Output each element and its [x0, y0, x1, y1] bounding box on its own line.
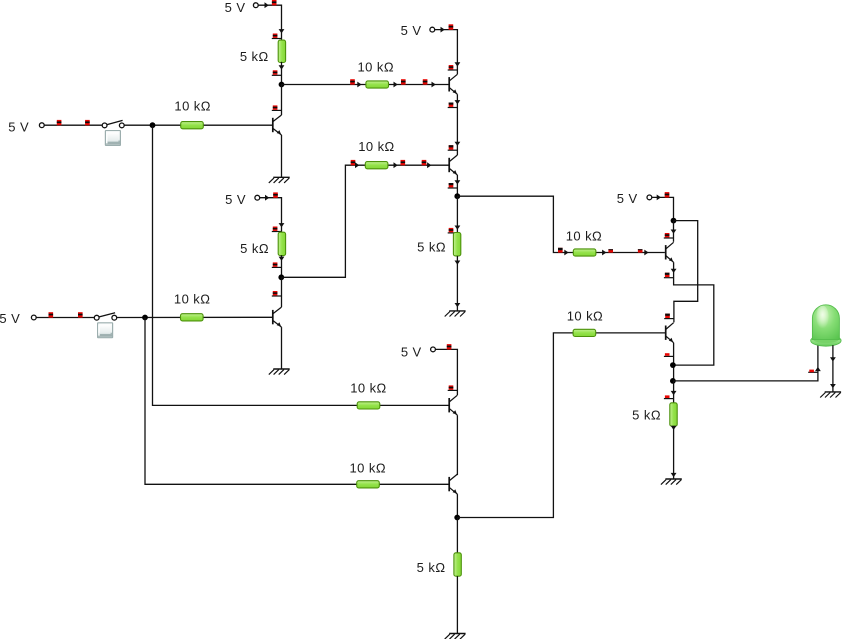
- pin marker: [272, 105, 282, 110]
- current arrow: [265, 2, 269, 8]
- transistor Q2 (input B inverter): [273, 307, 282, 327]
- wire 5k to node2: [281, 255, 283, 277]
- resistor 5 kOhm (output load): [632, 403, 677, 426]
- wire T3 emitter to T4 collector: [456, 94, 458, 155]
- pin marker: [608, 249, 613, 252]
- ground (Q1 emitter): [269, 177, 290, 183]
- svg-text:5 kΩ: 5 kΩ: [240, 49, 269, 64]
- wire 5V top-left to corner: [258, 5, 281, 40]
- resistor 10 kOhm (input B): [174, 291, 211, 321]
- node junction (input B tap): [142, 315, 148, 321]
- power terminal 5V (top-middle supply): [401, 23, 435, 38]
- svg-text:5 V: 5 V: [401, 23, 422, 38]
- node junction (node1): [279, 82, 285, 88]
- pin marker: [401, 79, 406, 84]
- svg-text:10 kΩ: 10 kΩ: [566, 229, 603, 244]
- pin marker: [78, 312, 83, 317]
- current arrow: [602, 250, 606, 256]
- current arrow: [455, 142, 461, 146]
- transistor T6 (output pair bottom): [666, 323, 674, 343]
- power terminal 5V (bottom supply): [401, 344, 436, 359]
- resistor 10 kOhm (node2 row): [358, 139, 395, 169]
- svg-text:5 kΩ: 5 kΩ: [240, 241, 269, 256]
- current arrow: [830, 384, 836, 388]
- power terminal 5V (input B): [0, 311, 36, 326]
- pin marker: [638, 249, 643, 252]
- wire pair1 output to 5k: [456, 196, 458, 232]
- power terminal 5V (mid-left supply): [225, 192, 260, 207]
- pin marker: [448, 385, 458, 390]
- wire Q1 emitter to ground: [281, 135, 283, 177]
- power terminal 5V (input A): [8, 119, 44, 134]
- pin marker: [664, 233, 674, 238]
- wire T7 emitter to T8 collector: [456, 415, 458, 475]
- current arrow: [455, 303, 461, 307]
- ground (pair1 load): [445, 311, 466, 317]
- pin marker: [272, 262, 282, 267]
- svg-text:5 V: 5 V: [8, 119, 29, 134]
- resistor 10 kOhm (T8 base): [350, 461, 387, 488]
- svg-text:5 V: 5 V: [401, 344, 422, 359]
- pin marker: [272, 70, 282, 75]
- resistor 10 kOhm (node1 row): [358, 60, 395, 89]
- LED D1 (green): [811, 305, 841, 346]
- wire pair2 output to 5k: [456, 518, 458, 553]
- current arrow: [455, 62, 461, 66]
- wire 5k to ground: [456, 576, 458, 633]
- resistor 10 kOhm (to T5 base): [566, 229, 603, 256]
- transistor T3 (series pair top): [449, 74, 457, 94]
- svg-text:5 kΩ: 5 kΩ: [632, 407, 661, 422]
- wire output node to LED anode: [673, 345, 818, 381]
- wire node2 L-path to T4 base row: [281, 165, 448, 277]
- pin marker: [401, 160, 406, 165]
- push button icon SW-B: [97, 322, 113, 338]
- wire input B vertical to T8 base: [145, 318, 449, 485]
- pin marker: [664, 273, 674, 278]
- current arrow: [671, 230, 677, 234]
- pin marker: [57, 120, 62, 125]
- pin marker: [351, 160, 356, 165]
- current arrow: [394, 162, 398, 168]
- transistor T8 (series pair2 bottom): [449, 474, 457, 494]
- svg-text:10 kΩ: 10 kΩ: [350, 380, 387, 395]
- pin marker: [272, 291, 282, 296]
- pin marker: [272, 0, 277, 5]
- wire T4 emitter to out-node: [456, 175, 458, 196]
- switch SW-B (open): [94, 313, 116, 320]
- svg-text:5 V: 5 V: [225, 192, 246, 207]
- transistor T5 (output pair top): [666, 242, 674, 262]
- wire Q1 collector to node1: [281, 85, 283, 116]
- wire 5V bottom to T7 collector: [435, 349, 457, 395]
- svg-text:5 V: 5 V: [225, 0, 246, 15]
- transistor T7 (series pair2 top): [449, 395, 457, 415]
- switch SW-A (open): [102, 120, 124, 127]
- wire pair2 output to T6 base row: [457, 333, 665, 518]
- current arrow: [455, 180, 461, 184]
- pin marker: [447, 344, 452, 349]
- wire T8 emitter to out-node2: [456, 494, 458, 517]
- pin marker: [665, 192, 670, 197]
- current arrow: [279, 29, 285, 33]
- current arrow: [564, 250, 568, 256]
- resistor 10 kOhm (T7 base): [350, 380, 387, 409]
- node junction (right supply node): [671, 218, 677, 224]
- ground (Q2 emitter): [269, 369, 290, 375]
- current arrow: [830, 357, 836, 361]
- wire 5V top-middle to T3 collector: [435, 30, 458, 75]
- pin marker: [664, 314, 674, 319]
- current arrow: [455, 226, 461, 230]
- svg-text:5 V: 5 V: [617, 191, 638, 206]
- wire switch B to Q2 base: [117, 316, 272, 318]
- wire input A terminal to switch: [44, 124, 102, 126]
- svg-text:10 kΩ: 10 kΩ: [350, 461, 387, 476]
- wire switch A to Q1 base: [124, 124, 272, 126]
- current arrow: [265, 195, 269, 201]
- wire bypass to T6 collector: [674, 221, 698, 323]
- node junction (node2): [278, 274, 284, 280]
- svg-text:10 kΩ: 10 kΩ: [174, 99, 211, 114]
- wire T5 emitter path to emitter join: [673, 262, 714, 365]
- current arrow: [355, 162, 359, 168]
- wire input B terminal to switch: [36, 317, 94, 319]
- pin marker: [448, 65, 458, 70]
- pin marker: [422, 160, 427, 165]
- resistor 5 kOhm (pair2 load): [417, 553, 462, 576]
- pin marker: [350, 79, 355, 84]
- pin marker: [664, 395, 674, 398]
- resistor 5 kOhm (stage 2): [240, 232, 285, 256]
- current arrow: [279, 223, 285, 227]
- node junction (pair1 output): [454, 193, 460, 199]
- current arrow: [644, 250, 648, 256]
- wire pair1 output to T5 base row: [457, 196, 665, 252]
- current arrow: [432, 82, 436, 88]
- resistor 5 kOhm (pair1 load): [417, 233, 461, 256]
- pin marker: [448, 228, 458, 233]
- pin marker: [272, 34, 282, 39]
- node junction (emitter join): [670, 362, 676, 368]
- current arrow: [671, 269, 677, 273]
- current arrow: [671, 473, 677, 477]
- svg-text:5 kΩ: 5 kΩ: [417, 240, 446, 255]
- pin marker: [664, 353, 674, 356]
- wire node1 row to T3 base: [282, 84, 449, 86]
- current arrow: [441, 27, 445, 33]
- pin marker: [448, 103, 458, 108]
- pin marker: [449, 24, 454, 29]
- wire T6 emitter to output node: [673, 343, 675, 381]
- wire input A vertical to T7 base: [153, 125, 449, 405]
- wire 5k bottom to node1: [281, 62, 283, 85]
- wire 5k to ground: [456, 256, 458, 311]
- pin marker: [423, 79, 428, 84]
- power terminal 5V (right supply): [617, 191, 652, 206]
- current arrow: [357, 82, 361, 88]
- wire LED cathode to ground: [832, 345, 834, 392]
- wire 5k to ground: [673, 427, 675, 479]
- current arrow: [671, 426, 677, 430]
- pin marker: [272, 227, 282, 232]
- transistor Q1 (input A inverter): [273, 115, 282, 135]
- pin marker: [448, 183, 458, 188]
- svg-text:10 kΩ: 10 kΩ: [567, 309, 604, 324]
- current arrow: [455, 261, 461, 265]
- power terminal 5V (top-left supply): [225, 0, 259, 15]
- ground (output load): [661, 479, 682, 485]
- node junction (input A tap): [150, 122, 156, 128]
- current arrow: [455, 100, 461, 104]
- wire junction to T5 collector: [673, 221, 675, 242]
- pin marker: [85, 120, 90, 125]
- wire Q2 emitter to ground: [281, 327, 283, 369]
- transistor T4 (series pair bottom): [449, 155, 457, 175]
- current arrow: [279, 65, 285, 69]
- pin marker: [273, 192, 278, 197]
- current arrow: [671, 391, 677, 395]
- resistor 5 kOhm (top): [240, 40, 286, 64]
- wire 5V mid-left to corner: [260, 198, 282, 233]
- current arrow: [279, 257, 285, 261]
- push button icon SW-A: [105, 130, 121, 146]
- current arrow: [394, 82, 398, 88]
- node junction (LED tap): [670, 378, 676, 384]
- svg-text:10 kΩ: 10 kΩ: [358, 60, 395, 75]
- resistor 10 kOhm (input A): [174, 99, 211, 129]
- svg-text:10 kΩ: 10 kΩ: [358, 139, 395, 154]
- pin marker: [558, 248, 563, 253]
- ground (LED cathode): [820, 392, 841, 398]
- svg-text:5 V: 5 V: [0, 311, 20, 326]
- pin marker: [49, 312, 54, 317]
- current arrow: [815, 367, 821, 371]
- wire output node to 5k: [673, 381, 675, 403]
- current arrow: [657, 195, 661, 201]
- current arrow: [427, 162, 431, 168]
- ground (pair2 load): [445, 634, 466, 639]
- pin marker: [448, 145, 458, 150]
- wire Q2 collector to node2: [281, 277, 283, 307]
- pin marker (LED anode): [808, 370, 818, 373]
- resistor 10 kOhm (to T6 base): [567, 309, 604, 337]
- wire 5V right to junction: [652, 197, 674, 220]
- svg-text:5 kΩ: 5 kΩ: [417, 560, 446, 575]
- node junction (pair2 output): [454, 515, 460, 521]
- svg-text:10 kΩ: 10 kΩ: [174, 291, 211, 306]
